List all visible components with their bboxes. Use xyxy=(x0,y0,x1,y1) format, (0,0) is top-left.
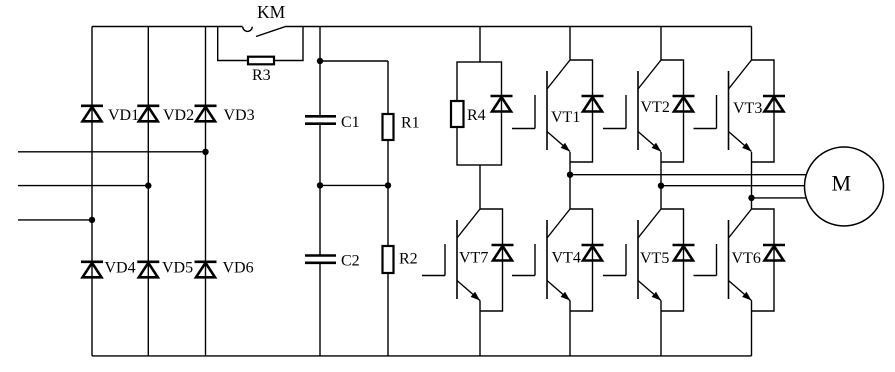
svg-text:VD6: VD6 xyxy=(223,260,254,277)
svg-text:VT6: VT6 xyxy=(732,250,761,267)
svg-text:KM: KM xyxy=(257,2,286,22)
svg-text:R4: R4 xyxy=(467,107,486,124)
svg-text:VT5: VT5 xyxy=(640,250,669,267)
svg-text:VT2: VT2 xyxy=(641,99,670,116)
svg-text:VD1: VD1 xyxy=(108,107,139,124)
svg-text:VD4: VD4 xyxy=(105,260,136,277)
svg-text:VD5: VD5 xyxy=(162,260,193,277)
svg-text:VT3: VT3 xyxy=(733,100,762,117)
svg-text:C1: C1 xyxy=(341,114,360,131)
svg-text:C2: C2 xyxy=(341,253,360,270)
svg-text:VT4: VT4 xyxy=(552,250,581,267)
svg-text:R1: R1 xyxy=(401,115,420,132)
svg-text:VT7: VT7 xyxy=(459,250,488,267)
svg-text:VD3: VD3 xyxy=(224,107,255,124)
svg-text:VD2: VD2 xyxy=(163,107,194,124)
svg-text:R3: R3 xyxy=(252,67,271,84)
svg-text:VT1: VT1 xyxy=(551,109,580,126)
svg-text:R2: R2 xyxy=(399,251,418,268)
svg-text:M: M xyxy=(832,171,852,196)
